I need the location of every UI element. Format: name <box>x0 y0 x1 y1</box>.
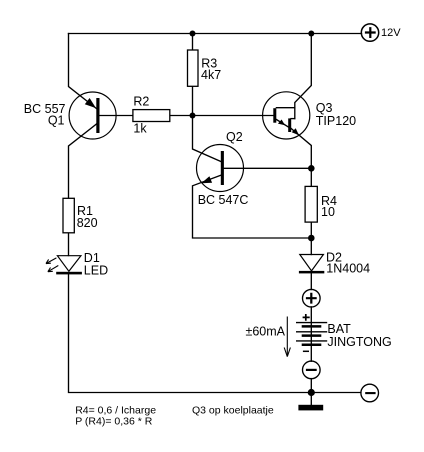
svg-text:1k: 1k <box>133 122 147 136</box>
svg-text:R4= 0,6 / Icharge: R4= 0,6 / Icharge <box>75 404 156 416</box>
svg-text:1N4004: 1N4004 <box>326 262 370 276</box>
svg-text:Q3 op koelplaatje: Q3 op koelplaatje <box>192 404 274 416</box>
svg-text:LED: LED <box>84 263 108 277</box>
svg-text:Q1: Q1 <box>48 113 65 127</box>
svg-text:TIP120: TIP120 <box>316 114 356 128</box>
svg-text:P (R4)= 0,36 * R: P (R4)= 0,36 * R <box>75 416 153 428</box>
svg-text:820: 820 <box>77 216 98 230</box>
svg-text:10: 10 <box>321 205 335 219</box>
svg-text:±60mA: ±60mA <box>245 324 285 338</box>
svg-text:Q2: Q2 <box>226 130 243 144</box>
svg-text:R2: R2 <box>133 94 149 108</box>
svg-text:4k7: 4k7 <box>201 68 221 82</box>
svg-text:BC 547C: BC 547C <box>198 193 249 207</box>
svg-text:JINGTONG: JINGTONG <box>327 335 391 349</box>
svg-text:12V: 12V <box>381 27 401 39</box>
svg-text:BAT: BAT <box>327 322 351 336</box>
svg-text:Q3: Q3 <box>316 101 333 115</box>
